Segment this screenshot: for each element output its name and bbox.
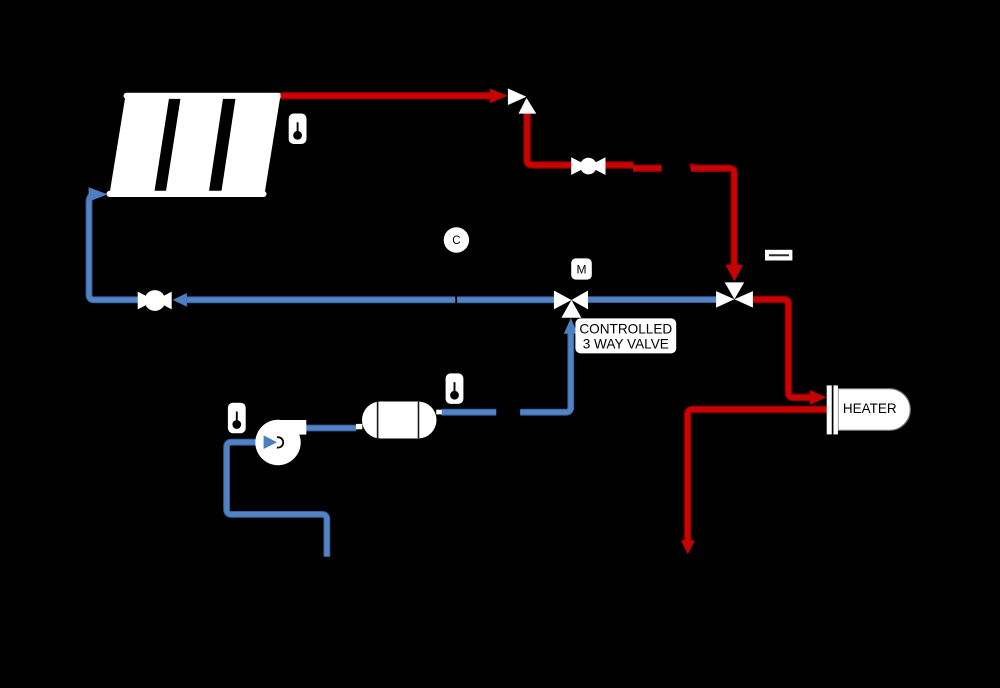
svg-text:CONTROLLED: CONTROLLED bbox=[579, 322, 672, 337]
vent symbol (white box with line) bbox=[765, 250, 792, 261]
motor M box bbox=[571, 258, 592, 279]
wire: red pipe 3-way valve to heater inlet bbox=[753, 299, 827, 404]
thermometer vessel outlet bbox=[446, 373, 464, 404]
wire: blue pipe vessel to controlled 3-way valve bbox=[442, 318, 578, 412]
solar collector bbox=[107, 93, 282, 197]
wire: blue pipe pump outlet to vessel bbox=[306, 425, 356, 432]
controller C bbox=[444, 227, 469, 252]
svg-text:M: M bbox=[577, 262, 587, 276]
pump bbox=[255, 420, 306, 465]
wire: red pipe after gap down to 3-way valve bbox=[690, 163, 743, 281]
svg-text:C: C bbox=[452, 235, 460, 247]
thermometer collector bbox=[289, 114, 307, 145]
wire: blue pipe controlled valve to left ball valve bbox=[173, 293, 554, 307]
ball valve blue line bbox=[138, 290, 172, 311]
thermometer pump inlet bbox=[228, 403, 246, 434]
3-way valve right bbox=[716, 282, 753, 307]
svg-text:3 WAY VALVE: 3 WAY VALVE bbox=[583, 337, 669, 352]
controlled 3-way valve U1 bbox=[554, 291, 588, 318]
wire: blue pipe ball valve up to collector bbox=[89, 187, 138, 300]
check valve (angle) top bbox=[508, 88, 536, 113]
expansion vessel bbox=[356, 402, 442, 439]
wire: red pipe heater return down with arrow bbox=[681, 409, 827, 554]
wire: blue pipe right 3-way valve to controlled valve bbox=[588, 296, 716, 303]
label CONTROLLED 3 WAY VALVE bbox=[575, 318, 676, 353]
heater bbox=[827, 385, 911, 434]
wire: red pipe collector to check valve bbox=[281, 89, 508, 103]
ball valve red line bbox=[571, 157, 605, 175]
svg-text:HEATER: HEATER bbox=[843, 401, 897, 416]
wire: blue pipe tail into pump bbox=[227, 435, 327, 556]
wire: red pipe check valve down through ball valve bbox=[527, 113, 661, 168]
